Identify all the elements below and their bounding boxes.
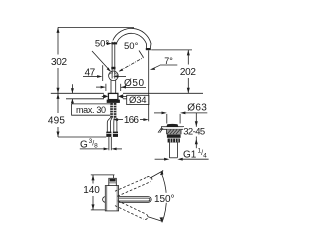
- wire 495 bottom extension: [58, 136, 106, 138]
- node 50deg right leg: [120, 58, 144, 72]
- topview 140 extension top: [91, 174, 115, 176]
- node 150deg leg upper: [150, 171, 163, 179]
- spout inner arc: [117, 33, 147, 48]
- dashed spout lower: [115, 201, 148, 220]
- node 150deg arc: [161, 172, 167, 223]
- lever rod: [111, 42, 113, 71]
- node dia34 arrows: [102, 95, 104, 97]
- threaded shank: [110, 103, 116, 118]
- wire 302 top extension line: [58, 26, 134, 28]
- node 202 dimension: [151, 49, 192, 51]
- topview spout stadium inner: [119, 198, 150, 201]
- spout outer arc: [113, 28, 151, 48]
- svg-text:32-45: 32-45: [183, 126, 205, 137]
- node dia63 dimension: [154, 112, 163, 114]
- node 302/495 dimension line: [57, 27, 59, 54]
- node dia34 box: [127, 95, 149, 104]
- hose nut left: [106, 132, 111, 137]
- node max30 box: [72, 104, 110, 115]
- G38 extension lines: [108, 137, 110, 150]
- svg-text:50°: 50°: [124, 41, 139, 52]
- wire deck bottom line: [66, 98, 104, 100]
- topview body: [105, 186, 118, 211]
- node 50deg-1 leader: [106, 43, 108, 45]
- svg-text:140: 140: [83, 185, 100, 196]
- faucet base body square: [108, 93, 118, 99]
- node 150deg leg lower: [148, 217, 162, 222]
- node 32-45 dimension: [195, 113, 197, 127]
- svg-text:max. 30: max. 30: [76, 105, 106, 115]
- base plate: [107, 100, 120, 103]
- node 7deg annotation: [160, 64, 178, 66]
- drain locknut: [167, 134, 181, 137]
- svg-text:47: 47: [85, 67, 96, 78]
- svg-text:302: 302: [51, 57, 67, 68]
- node 140 dimension line: [92, 175, 94, 184]
- aerator: [146, 48, 151, 50]
- svg-text:166: 166: [124, 115, 139, 126]
- node 47 dimension: [83, 76, 98, 78]
- ball joint: [109, 71, 119, 81]
- svg-text:50°: 50°: [95, 39, 110, 50]
- node 166 dimension: [113, 118, 118, 121]
- wire deck top line: [51, 92, 104, 94]
- svg-text:202: 202: [180, 67, 196, 78]
- basin hatch right: [184, 128, 187, 133]
- svg-text:Ø63: Ø63: [187, 102, 207, 113]
- hose nut right: [113, 132, 118, 137]
- svg-text:150°: 150°: [154, 194, 175, 205]
- hose left: [107, 118, 110, 133]
- node max30 dimension arrows: [71, 84, 73, 93]
- lever hub: [111, 67, 115, 70]
- svg-text:495: 495: [48, 116, 65, 127]
- node G38 dimension: [80, 148, 105, 150]
- pipe body: [110, 80, 112, 93]
- node 50deg left leg: [92, 51, 110, 71]
- svg-text:Ø50: Ø50: [124, 78, 144, 89]
- text knockouts: [124, 41, 206, 203]
- topview spout stadium outer: [103, 197, 152, 203]
- hose right: [113, 118, 116, 133]
- drain push cap: [166, 124, 178, 127]
- svg-text:Ø34: Ø34: [129, 95, 147, 106]
- dashed spout upper: [115, 176, 152, 196]
- node dia50 dimension: [96, 86, 102, 88]
- topview 140 extension bottom: [91, 209, 106, 211]
- drain flange: [161, 127, 183, 130]
- wire outlet centerline extension: [148, 50, 150, 121]
- topview knob: [109, 178, 117, 185]
- drain body hatched: [167, 129, 181, 134]
- lever cap: [111, 42, 117, 44]
- node G114 dimension: [155, 158, 165, 160]
- svg-text:7°: 7°: [164, 56, 173, 66]
- basin hatch left: [158, 128, 161, 133]
- drain tailpipe: [168, 143, 170, 158]
